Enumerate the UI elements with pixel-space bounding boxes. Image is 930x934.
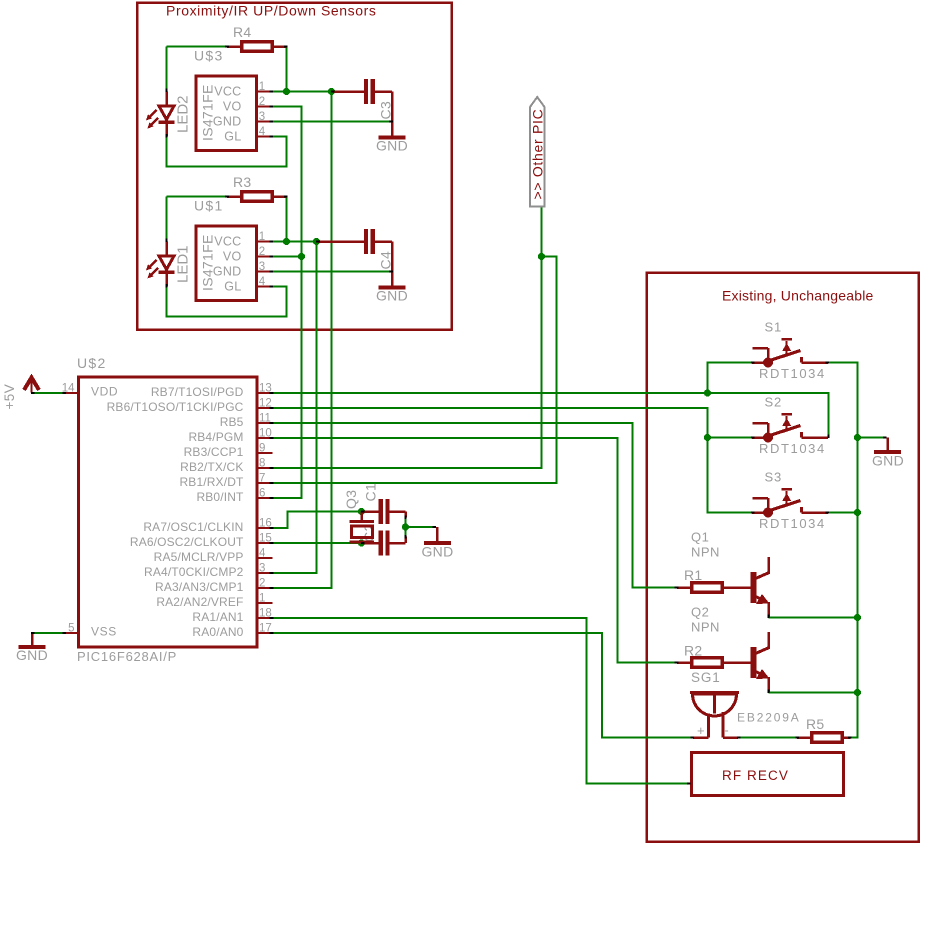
junction R3/VCC (283, 238, 290, 245)
svg-text:LED1: LED1 (175, 245, 192, 283)
wire down to LED1 anode (166, 197, 168, 241)
ground GND at crystal (424, 527, 451, 543)
svg-text:VCC: VCC (214, 85, 241, 99)
svg-text:6: 6 (259, 488, 265, 500)
wire S1 right down rail to R5 (828, 363, 858, 738)
svg-text:Proximity/IR UP/Down Sensors: Proximity/IR UP/Down Sensors (166, 3, 377, 19)
capacitor C4 (318, 229, 375, 254)
svg-text:17: 17 (259, 623, 272, 635)
svg-text:15: 15 (259, 533, 272, 545)
pin 3 (258, 270, 273, 272)
pin 8 (258, 467, 273, 469)
IC U$3 IS471FE (196, 76, 257, 151)
svg-text:RA2/AN2/VREF: RA2/AN2/VREF (156, 595, 243, 609)
svg-text:2: 2 (259, 96, 265, 108)
svg-text:1: 1 (259, 231, 265, 243)
junction S1 tee (704, 389, 711, 396)
wire speaker - to R5 (739, 737, 797, 739)
svg-text:U$2: U$2 (77, 355, 107, 371)
wire RB6 down to S3 left (272, 408, 752, 513)
svg-text:13: 13 (259, 383, 272, 395)
svg-text:7: 7 (259, 473, 265, 485)
svg-text:RA0/AN0: RA0/AN0 (192, 625, 243, 639)
svg-text:PIC16F628AI/P: PIC16F628AI/P (77, 649, 177, 664)
IC U$1 IS471FE (196, 226, 257, 301)
pin 2 (258, 105, 273, 107)
supply +5V symbol (24, 378, 39, 393)
block RF RECV (692, 753, 844, 796)
connection tips (31, 45, 887, 784)
svg-text:GND: GND (213, 265, 242, 279)
wire RA0/AN0 to speaker + (272, 633, 692, 738)
switch S1 RDT1034 (752, 339, 828, 368)
flag Other PIC (530, 97, 545, 207)
junction crystal bottom (358, 539, 365, 546)
svg-text:U$3: U$3 (194, 48, 224, 64)
svg-text:12: 12 (259, 398, 272, 410)
wire U$3 VCC row (272, 91, 332, 93)
svg-text:1: 1 (259, 81, 265, 93)
LED LED1 (146, 242, 175, 287)
pin 17 (258, 632, 273, 634)
pin 3 (258, 120, 273, 122)
IC U$2 PIC16F628AI/P (79, 377, 258, 647)
resistor R2 (677, 658, 751, 668)
wire R3 left to LED1 loop (167, 196, 228, 198)
junction Other PIC net (538, 253, 545, 260)
svg-text:GND: GND (376, 138, 408, 154)
svg-text:Existing, Unchangeable: Existing, Unchangeable (722, 288, 874, 304)
svg-text:R5: R5 (806, 716, 825, 732)
wire S3 right to rail (828, 512, 858, 514)
svg-text:9: 9 (259, 443, 265, 455)
svg-text:4: 4 (259, 276, 266, 288)
svg-text:RDT1034: RDT1034 (759, 516, 826, 531)
pin 9 (258, 452, 272, 454)
wire RB5 to R1 (272, 423, 677, 588)
wire R4 left to LED2 loop (167, 46, 228, 48)
wire Other PIC to RB2/TX/CK (272, 207, 542, 468)
pin 11 (258, 422, 273, 424)
resistor R5 (797, 733, 851, 743)
wire C1 to C2 join (405, 517, 407, 538)
svg-text:4: 4 (259, 548, 266, 560)
wire RA7/OSC1/CLKIN to crystal (272, 512, 362, 529)
pin 15 (258, 542, 273, 544)
svg-text:VSS: VSS (91, 625, 117, 639)
resistor R4 (227, 42, 287, 52)
wire join to GND (406, 526, 437, 528)
svg-text:R3: R3 (233, 174, 252, 190)
wire branch to S2 left (708, 437, 753, 439)
junction Q1 emitter (854, 614, 861, 621)
ground GND under C3 (379, 136, 406, 140)
wire RA6/OSC2/CLKOUT to crystal (272, 542, 362, 544)
wire U$3 VCC down to RA3/AN3/CMP1 (272, 92, 332, 589)
svg-text:Q1: Q1 (691, 530, 709, 545)
pin 4 (258, 557, 272, 559)
svg-text:3: 3 (259, 563, 265, 575)
svg-text:RB6/T1OSO/T1CKI/PGC: RB6/T1OSO/T1CKI/PGC (107, 400, 244, 414)
lead C1 right (390, 512, 406, 518)
svg-text:+5V: +5V (2, 384, 17, 410)
svg-text:RA6/OSC2/CLKOUT: RA6/OSC2/CLKOUT (130, 535, 244, 549)
svg-text:GND: GND (376, 288, 408, 304)
svg-text:Q3: Q3 (343, 490, 359, 509)
resistor R3 (227, 192, 287, 202)
svg-text:RA5/MCLR/VPP: RA5/MCLR/VPP (154, 550, 244, 564)
svg-text:RB3/CCP1: RB3/CCP1 (184, 445, 244, 459)
svg-text:14: 14 (62, 383, 75, 395)
pin 6 (258, 497, 273, 499)
svg-text:C3: C3 (378, 101, 394, 120)
svg-text:5: 5 (68, 623, 74, 635)
wire branch up to S1 left (708, 363, 753, 394)
pin 14 VDD (63, 392, 79, 394)
svg-text:RB1/RX/DT: RB1/RX/DT (179, 475, 244, 489)
svg-text:RB2/TX/CK: RB2/TX/CK (180, 460, 243, 474)
lead C2 right (390, 537, 406, 544)
wire RB7 to S1 and S2 right (272, 393, 829, 438)
junction R4/VCC (283, 88, 290, 95)
svg-text:GL: GL (224, 280, 241, 294)
wire U$3 GND row to C3 (272, 121, 392, 123)
svg-text:IS471FE: IS471FE (200, 84, 216, 141)
wire GND to VSS (32, 632, 64, 634)
svg-text:RA3/AN3/CMP1: RA3/AN3/CMP1 (155, 580, 244, 594)
junction caps to GND (402, 523, 409, 530)
svg-text:RB5: RB5 (220, 415, 244, 429)
wire Q1 emitter to rail (769, 617, 858, 619)
pin 2 (258, 587, 273, 589)
svg-text:RF RECV: RF RECV (722, 768, 789, 783)
wire U$1 VCC down to RA4/T0CKI/CMP2 (272, 242, 317, 574)
svg-text:RA1/AN1: RA1/AN1 (192, 610, 243, 624)
wire LED1 cathode loop to pin GL (167, 287, 287, 317)
ground GND under C4 (379, 286, 406, 290)
svg-text:>> Other PIC: >> Other PIC (530, 109, 546, 200)
frame Existing, Unchangeable box (647, 273, 919, 842)
pin 1 (258, 240, 273, 242)
capacitor C1 (363, 499, 390, 524)
wire RA1/AN1 to RF RECV (272, 618, 690, 784)
wire RB4/PGM to R2 (272, 438, 677, 663)
svg-text:EB2209A: EB2209A (737, 711, 801, 725)
pin 2 (258, 255, 273, 257)
svg-text:R1: R1 (684, 567, 703, 583)
svg-text:VO: VO (223, 100, 242, 114)
frame Proximity/IR UP/Down Sensors box (137, 3, 452, 330)
transistor Q1 NPN (724, 557, 770, 618)
junction VCC/C4 net (313, 238, 320, 245)
wire LED2 cathode loop to pin GL (167, 137, 287, 167)
lead C3 to ground (375, 92, 392, 136)
speaker SG1 EB2209A (690, 693, 739, 738)
resistor R1 (677, 583, 751, 593)
pin 12 (258, 407, 273, 409)
svg-text:10: 10 (259, 428, 272, 440)
svg-text:RA4/T0CKI/CMP2: RA4/T0CKI/CMP2 (144, 565, 244, 579)
svg-text:NPN: NPN (691, 620, 720, 635)
svg-text:Q2: Q2 (691, 605, 709, 620)
svg-text:2: 2 (259, 246, 265, 258)
pin 5 VSS (63, 632, 79, 634)
switch S3 RDT1034 (752, 489, 828, 518)
switch S2 RDT1034 (752, 414, 828, 443)
svg-text:RB7/T1OSI/PGD: RB7/T1OSI/PGD (151, 385, 244, 399)
svg-text:VCC: VCC (214, 235, 241, 249)
svg-text:S2: S2 (765, 395, 783, 410)
svg-text:R4: R4 (233, 24, 252, 40)
svg-text:2: 2 (259, 578, 265, 590)
svg-text:RDT1034: RDT1034 (759, 366, 826, 381)
wire U$3 VO down to RB0/INT (272, 107, 302, 499)
wire Q2 emitter to rail (769, 692, 858, 694)
pin 16 (258, 527, 273, 529)
wire U$1 VO to VO net (272, 256, 302, 258)
junction S3 right (854, 509, 861, 516)
svg-text:RA7/OSC1/CLKIN: RA7/OSC1/CLKIN (143, 520, 243, 534)
svg-text:IS471FE: IS471FE (200, 234, 216, 291)
pin 1 (258, 90, 273, 92)
pin 18 (258, 617, 273, 619)
svg-text:NPN: NPN (691, 545, 720, 560)
pin 3 (258, 572, 273, 574)
svg-text:C4: C4 (378, 251, 394, 270)
wire +5V to VDD (33, 392, 64, 394)
transistor Q2 NPN (724, 632, 770, 693)
LED LED2 (146, 92, 175, 137)
svg-text:8: 8 (259, 458, 265, 470)
svg-text:R2: R2 (684, 643, 703, 659)
svg-text:S1: S1 (765, 320, 783, 335)
pin 4 (258, 135, 273, 137)
junction Q2 emitter (854, 689, 861, 696)
ground GND at switch rail (874, 438, 901, 453)
wire U$1 VCC row (272, 241, 317, 243)
pin 1 (258, 602, 272, 604)
wire U$1 GND row to C4 (272, 271, 392, 273)
svg-text:4: 4 (259, 126, 266, 138)
svg-text:18: 18 (259, 608, 272, 620)
svg-text:U$1: U$1 (194, 198, 224, 214)
svg-text:3: 3 (259, 261, 265, 273)
crystal Q3 (350, 512, 375, 543)
svg-text:LED2: LED2 (175, 95, 192, 133)
svg-text:+: + (697, 723, 705, 738)
svg-text:VO: VO (223, 250, 242, 264)
pin 4 (258, 285, 273, 287)
svg-text:16: 16 (259, 518, 272, 530)
wire R3 right down to VCC node (286, 197, 288, 242)
capacitor C3 (333, 79, 375, 104)
svg-text:GND: GND (872, 453, 904, 469)
capacitor C2 (363, 531, 390, 556)
junction VO net (298, 253, 305, 260)
svg-text:-: - (724, 723, 728, 738)
lead C4 to ground (375, 242, 392, 286)
wire R4 right down to VCC node (286, 47, 288, 92)
svg-text:1: 1 (259, 593, 265, 605)
svg-text:GND: GND (213, 115, 242, 129)
svg-text:GND: GND (421, 544, 453, 560)
junction rail GND tee (854, 434, 861, 441)
ground GND at VSS (19, 633, 46, 647)
pin 10 (258, 437, 273, 439)
junction S2 tee (704, 434, 711, 441)
pin 7 (258, 482, 273, 484)
junction crystal top (358, 508, 365, 515)
svg-text:GL: GL (224, 130, 241, 144)
wire rail to GND (858, 437, 886, 439)
wire down to LED2 anode (166, 47, 168, 91)
svg-text:RDT1034: RDT1034 (759, 441, 826, 456)
svg-text:3: 3 (259, 111, 265, 123)
junction VCC/C3 net (328, 88, 335, 95)
svg-text:C1: C1 (363, 483, 379, 502)
svg-text:RB4/PGM: RB4/PGM (188, 430, 243, 444)
svg-text:SG1: SG1 (691, 670, 721, 685)
svg-text:GND: GND (16, 647, 48, 663)
wire Other PIC branch to RB1/RX/DT (272, 257, 557, 484)
svg-text:VDD: VDD (91, 385, 118, 399)
svg-text:S3: S3 (765, 470, 783, 485)
svg-text:RB0/INT: RB0/INT (196, 490, 244, 504)
pin 13 (258, 392, 273, 394)
svg-text:11: 11 (259, 413, 271, 425)
